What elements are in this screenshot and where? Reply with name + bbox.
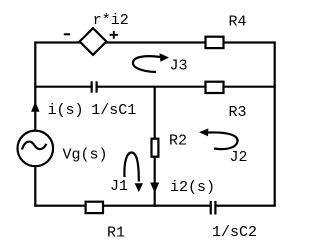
- mesh arrow J3: [133, 56, 161, 72]
- svg-text:R4: R4: [229, 14, 247, 31]
- wire outer loop: [35, 43, 274, 206]
- wire middle horizontal: [34, 86, 275, 88]
- resistor R2: [152, 139, 159, 157]
- svg-text:i(s): i(s): [48, 102, 84, 119]
- svg-text:J1: J1: [110, 178, 128, 195]
- label minus: [64, 33, 70, 35]
- resistor R1: [86, 202, 103, 213]
- svg-text:i2(s): i2(s): [170, 179, 215, 196]
- svg-text:R1: R1: [107, 225, 125, 242]
- mesh arrow J2: [208, 132, 238, 149]
- current arrow i(s) up: [31, 102, 39, 112]
- source sine: [22, 142, 46, 150]
- svg-text:1/sC1: 1/sC1: [91, 102, 136, 119]
- svg-text:R2: R2: [169, 133, 187, 150]
- current arrow i2(s) down: [150, 183, 159, 194]
- svg-text:J2: J2: [230, 149, 248, 166]
- capacitor C1: [92, 81, 97, 92]
- wire center vertical: [154, 86, 156, 207]
- source Vg circle: [18, 131, 54, 167]
- svg-text:1/sC2: 1/sC2: [212, 224, 257, 241]
- label plus: [110, 31, 118, 39]
- resistor R4: [206, 37, 224, 48]
- svg-text:r*i2: r*i2: [93, 12, 129, 29]
- capacitor C2: [211, 201, 216, 215]
- dependent source diamond r*i2: [80, 28, 107, 55]
- mesh arrow J1: [124, 153, 138, 182]
- svg-text:J3: J3: [170, 58, 188, 75]
- svg-text:Vg(s): Vg(s): [63, 147, 108, 164]
- resistor R3: [206, 82, 224, 93]
- svg-text:R3: R3: [229, 104, 247, 121]
